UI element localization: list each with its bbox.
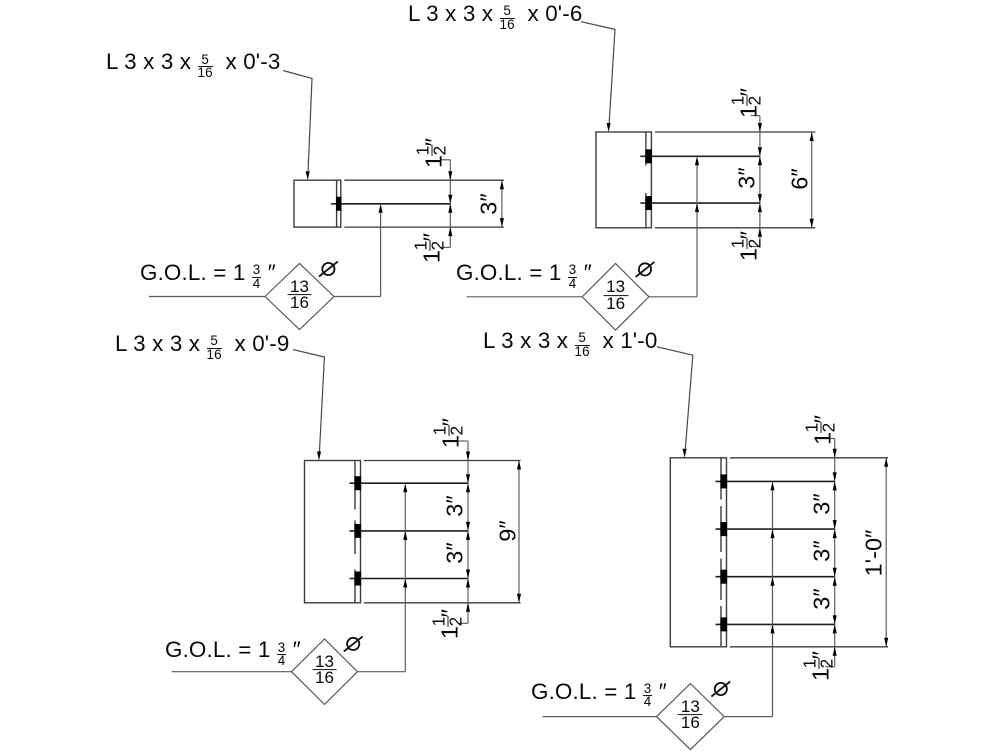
detail 4: diameter symbol <box>711 682 730 697</box>
detail 1: pitch dimension line (1 1/2 and 3 spacing) <box>441 160 452 248</box>
detail 3: gauge line 2 <box>350 530 469 532</box>
detail 2: pitch dimension line (1 1/2 and 3 spacing) <box>751 116 762 247</box>
detail 3: attached-leg top edge <box>364 460 521 462</box>
detail 1: G.O.L. leader line <box>149 204 383 297</box>
detail 3: bolt 2 <box>354 524 361 538</box>
detail 4: bolt 3 <box>720 570 727 584</box>
detail 1: 13/16 hole size fraction <box>287 279 312 311</box>
detail 4: overall length dimension line <box>884 458 888 647</box>
detail 4: gauge line 2 <box>716 528 835 530</box>
detail 2: upper edge distance 1 1/2 in <box>732 88 765 118</box>
detail 2: angle heel line <box>645 132 647 228</box>
detail 1: upper edge distance 1 1/2 in <box>417 138 450 168</box>
detail 4: 13/16 hole size fraction <box>678 699 703 731</box>
detail 2: size label L 3 x 3 x 5/16 x 0'-6 <box>408 3 582 31</box>
detail 2: lower edge distance 1 1/2 in <box>732 231 765 261</box>
detail 4: gauge line 1 <box>716 480 835 482</box>
detail 1: size label L 3 x 3 x 5/16 x 0'-3 <box>106 51 280 79</box>
detail 4: size label L 3 x 3 x 5/16 x 1'-0 <box>483 330 657 358</box>
detail 4: upper edge distance 1 1/2 in <box>806 415 839 445</box>
detail 2: bolt 1 <box>645 149 652 163</box>
detail 3: leader from size label <box>293 350 324 461</box>
detail 3: overall length dimension line <box>517 461 521 603</box>
detail 1: G.O.L. = 1 3/4 text <box>140 262 276 290</box>
detail 4: bolt spacing 3 in <box>810 588 834 609</box>
detail 4: bolt 1 <box>720 474 727 488</box>
detail 2: diameter symbol <box>636 262 655 277</box>
detail 4: leader from size label <box>657 347 693 458</box>
detail 4: bolt spacing 3 in <box>810 541 834 562</box>
detail 3: 13/16 hole size fraction <box>312 654 337 686</box>
detail 3: bolt spacing 3 in <box>444 542 468 563</box>
detail 2: bolt 2 <box>645 196 652 210</box>
detail 1: angle heel line <box>336 180 338 227</box>
detail 4: gauge line 4 <box>716 623 835 625</box>
detail 1: leader from size label <box>283 71 312 181</box>
detail 2: gauge line 1 <box>640 155 760 157</box>
detail 2: bolt spacing 3 in <box>735 167 759 188</box>
detail 3: lower edge distance 1 1/2 in <box>434 609 467 639</box>
detail 2: G.O.L. = 1 3/4 text <box>456 262 592 290</box>
detail 3: G.O.L. = 1 3/4 text <box>165 639 301 667</box>
detail 4: bolt 4 <box>720 617 727 631</box>
detail 3: overall length dimension text <box>496 521 520 542</box>
detail 4: bolt 2 <box>720 522 727 536</box>
detail 3: G.O.L. leader line <box>172 483 408 672</box>
detail 3: angle outstanding-leg rectangle <box>305 461 361 603</box>
detail 4: angle outstanding-leg rectangle <box>670 458 726 647</box>
detail 2: gauge line 2 <box>640 202 760 204</box>
detail 3: bolt spacing 3 in <box>444 495 468 516</box>
detail 1: diameter symbol <box>319 262 338 277</box>
detail 4: gauge line 3 <box>716 576 835 578</box>
detail 1: angle outstanding-leg rectangle <box>294 180 341 227</box>
detail 2: attached-leg bottom edge <box>655 227 815 229</box>
detail 1: hole-size diamond symbol <box>265 264 334 330</box>
detail 3: upper edge distance 1 1/2 in <box>434 418 467 448</box>
detail 1: overall length dimension line <box>500 180 504 227</box>
detail 3: bolt 3 <box>354 572 361 586</box>
detail 3: pitch dimension line (1 1/2 and 3 spacing) <box>459 441 470 623</box>
detail 2: angle outstanding-leg rectangle <box>596 132 651 228</box>
detail 3: attached-leg bottom edge <box>364 602 521 604</box>
detail 3: angle heel line <box>354 461 356 603</box>
detail 3: bolt 1 <box>354 476 361 490</box>
detail 1: gauge line 1 <box>331 203 450 205</box>
detail 4: overall length dimension text <box>862 529 886 576</box>
detail 4: G.O.L. leader line <box>543 481 775 716</box>
detail 4: angle heel line <box>720 458 722 647</box>
detail 1: attached-leg top edge <box>344 179 504 181</box>
detail 4: pitch dimension line (1 1/2 and 3 spacing) <box>825 439 836 667</box>
detail 4: hole-size diamond symbol <box>657 684 725 750</box>
detail 2: G.O.L. leader line <box>467 156 699 296</box>
detail 1: lower edge distance 1 1/2 in <box>415 233 448 263</box>
detail 4: G.O.L. = 1 3/4 text <box>531 681 667 709</box>
detail 4: attached-leg bottom edge <box>730 646 888 648</box>
detail 3: gauge line 3 <box>350 578 469 580</box>
detail 3: hole-size diamond symbol <box>292 639 358 704</box>
detail 4: attached-leg top edge <box>730 457 888 459</box>
detail 2: hole-size diamond symbol <box>582 264 649 331</box>
detail 3: size label L 3 x 3 x 5/16 x 0'-9 <box>115 333 289 361</box>
detail 2: overall length dimension text <box>788 168 812 189</box>
detail 4: bolt spacing 3 in <box>810 493 834 514</box>
detail 4: lower edge distance 1 1/2 in <box>804 651 837 681</box>
detail 3: gauge line 1 <box>350 482 469 484</box>
detail 2: overall length dimension line <box>810 132 814 228</box>
detail 2: 13/16 hole size fraction <box>603 279 628 311</box>
detail 1: attached-leg bottom edge <box>344 226 504 228</box>
detail 1: overall length dimension text <box>477 193 501 214</box>
detail 2: leader from size label <box>581 22 615 132</box>
detail 2: attached-leg top edge <box>655 131 815 133</box>
detail 3: diameter symbol <box>344 636 363 651</box>
detail 1: bolt 1 <box>336 197 341 211</box>
